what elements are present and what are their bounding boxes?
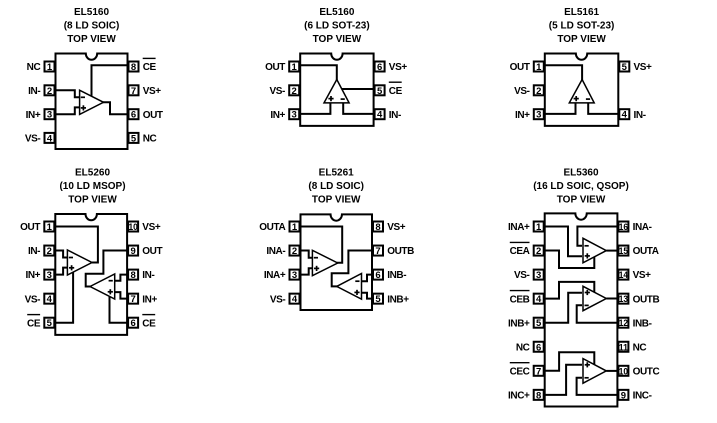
svg-text:3: 3	[47, 270, 52, 281]
svg-text:IN-: IN-	[634, 110, 646, 121]
svg-text:2: 2	[536, 246, 541, 257]
svg-text:15: 15	[619, 246, 629, 257]
svg-text:7: 7	[130, 294, 135, 305]
svg-text:OUTB: OUTB	[633, 294, 660, 305]
svg-text:6: 6	[377, 62, 382, 73]
svg-text:2: 2	[536, 86, 541, 97]
svg-text:4: 4	[292, 294, 298, 305]
svg-text:INB-: INB-	[387, 270, 406, 281]
svg-text:5: 5	[622, 62, 628, 73]
svg-text:2: 2	[292, 246, 297, 257]
svg-text:INA-: INA-	[266, 246, 285, 257]
svg-text:12: 12	[619, 318, 628, 329]
svg-text:NC: NC	[516, 342, 530, 353]
svg-text:TOP VIEW: TOP VIEW	[557, 34, 606, 45]
svg-text:CE: CE	[142, 318, 156, 329]
svg-text:TOP VIEW: TOP VIEW	[68, 195, 117, 206]
svg-text:OUTC: OUTC	[633, 366, 660, 377]
svg-text:OUT: OUT	[20, 222, 40, 233]
svg-text:2: 2	[47, 86, 52, 97]
svg-text:VS-: VS-	[25, 134, 41, 145]
svg-text:5: 5	[377, 86, 383, 97]
svg-text:(10 LD MSOP): (10 LD MSOP)	[59, 181, 125, 192]
svg-text:7: 7	[536, 366, 541, 377]
svg-text:4: 4	[47, 133, 53, 144]
svg-text:3: 3	[536, 110, 541, 121]
svg-text:5: 5	[536, 318, 542, 329]
svg-text:EL5160: EL5160	[319, 7, 354, 18]
svg-text:VS+: VS+	[143, 86, 162, 97]
svg-text:INB+: INB+	[508, 318, 530, 329]
svg-text:(8 LD SOIC): (8 LD SOIC)	[308, 181, 364, 192]
svg-text:6: 6	[536, 342, 541, 353]
svg-text:1: 1	[536, 222, 542, 233]
svg-text:8: 8	[130, 270, 135, 281]
svg-text:EL5160: EL5160	[74, 7, 109, 18]
svg-text:CE: CE	[389, 86, 403, 97]
svg-text:VS+: VS+	[633, 270, 652, 281]
svg-text:VS-: VS-	[270, 86, 286, 97]
svg-text:VS-: VS-	[270, 294, 286, 305]
svg-text:3: 3	[536, 270, 541, 281]
svg-text:9: 9	[130, 246, 135, 257]
svg-text:11: 11	[619, 342, 629, 353]
svg-text:INC-: INC-	[633, 390, 652, 401]
svg-text:CEB: CEB	[510, 294, 530, 305]
svg-text:IN+: IN+	[142, 294, 157, 305]
svg-text:14: 14	[619, 270, 629, 281]
svg-text:(5 LD SOT-23): (5 LD SOT-23)	[549, 21, 615, 32]
svg-text:10: 10	[619, 366, 628, 377]
svg-text:10: 10	[128, 222, 137, 233]
svg-text:8: 8	[131, 62, 136, 73]
svg-text:OUT: OUT	[265, 62, 285, 73]
svg-text:CE: CE	[27, 318, 41, 329]
svg-text:VS-: VS-	[25, 294, 41, 305]
svg-text:3: 3	[292, 270, 297, 281]
svg-text:2: 2	[292, 86, 297, 97]
svg-text:EL5360: EL5360	[563, 168, 598, 179]
svg-text:IN+: IN+	[26, 110, 41, 121]
svg-text:IN+: IN+	[25, 270, 40, 281]
svg-text:IN+: IN+	[270, 110, 285, 121]
svg-text:INA-: INA-	[633, 222, 652, 233]
svg-text:IN-: IN-	[389, 110, 401, 121]
svg-text:6: 6	[130, 318, 135, 329]
svg-text:(8 LD SOIC): (8 LD SOIC)	[64, 21, 120, 32]
svg-text:VS+: VS+	[389, 62, 408, 73]
svg-text:EL5161: EL5161	[564, 7, 599, 18]
svg-text:IN-: IN-	[28, 86, 40, 97]
svg-text:4: 4	[622, 110, 628, 121]
svg-text:CEA: CEA	[510, 246, 530, 257]
svg-text:2: 2	[47, 246, 52, 257]
svg-text:INA+: INA+	[508, 222, 530, 233]
svg-text:VS+: VS+	[387, 222, 406, 233]
svg-text:NC: NC	[143, 134, 157, 145]
svg-text:6: 6	[131, 110, 136, 121]
svg-text:TOP VIEW: TOP VIEW	[312, 195, 361, 206]
svg-text:OUTB: OUTB	[387, 246, 414, 257]
svg-text:OUT: OUT	[142, 246, 162, 257]
svg-text:1: 1	[292, 222, 298, 233]
svg-text:(16 LD SOIC, QSOP): (16 LD SOIC, QSOP)	[533, 181, 629, 192]
svg-text:TOP VIEW: TOP VIEW	[557, 195, 606, 206]
svg-text:4: 4	[536, 294, 542, 305]
svg-text:VS-: VS-	[514, 270, 530, 281]
svg-text:INC+: INC+	[508, 390, 530, 401]
svg-text:3: 3	[47, 110, 52, 121]
svg-text:5: 5	[131, 133, 137, 144]
svg-text:7: 7	[131, 86, 136, 97]
svg-text:INB-: INB-	[633, 318, 652, 329]
svg-text:4: 4	[47, 294, 53, 305]
svg-text:TOP VIEW: TOP VIEW	[313, 34, 362, 45]
svg-text:CE: CE	[143, 62, 157, 73]
svg-text:OUT: OUT	[510, 62, 530, 73]
svg-text:EL5261: EL5261	[319, 168, 354, 179]
svg-text:VS+: VS+	[142, 222, 161, 233]
svg-text:1: 1	[47, 62, 53, 73]
svg-text:8: 8	[375, 222, 380, 233]
svg-text:EL5260: EL5260	[75, 168, 110, 179]
svg-text:1: 1	[536, 62, 542, 73]
svg-text:4: 4	[377, 110, 383, 121]
svg-text:6: 6	[375, 270, 380, 281]
svg-text:5: 5	[375, 294, 381, 305]
svg-text:1: 1	[292, 62, 298, 73]
svg-text:16: 16	[619, 222, 628, 233]
svg-text:13: 13	[619, 294, 628, 305]
svg-text:(6 LD SOT-23): (6 LD SOT-23)	[304, 21, 370, 32]
svg-text:IN-: IN-	[28, 246, 40, 257]
svg-text:OUT: OUT	[143, 110, 163, 121]
svg-text:OUTA: OUTA	[259, 222, 285, 233]
svg-text:1: 1	[47, 222, 53, 233]
svg-text:IN+: IN+	[515, 110, 530, 121]
svg-text:NC: NC	[633, 342, 647, 353]
svg-text:CEC: CEC	[510, 366, 530, 377]
svg-text:VS-: VS-	[514, 86, 530, 97]
svg-text:TOP VIEW: TOP VIEW	[67, 34, 116, 45]
svg-text:8: 8	[536, 390, 541, 401]
svg-text:OUTA: OUTA	[633, 246, 659, 257]
svg-text:IN-: IN-	[142, 270, 154, 281]
svg-text:3: 3	[292, 110, 297, 121]
svg-text:VS+: VS+	[634, 62, 653, 73]
svg-text:INA+: INA+	[264, 270, 286, 281]
svg-text:9: 9	[621, 390, 626, 401]
svg-text:5: 5	[47, 318, 53, 329]
svg-text:7: 7	[375, 246, 380, 257]
svg-text:NC: NC	[27, 62, 41, 73]
svg-text:INB+: INB+	[387, 294, 409, 305]
